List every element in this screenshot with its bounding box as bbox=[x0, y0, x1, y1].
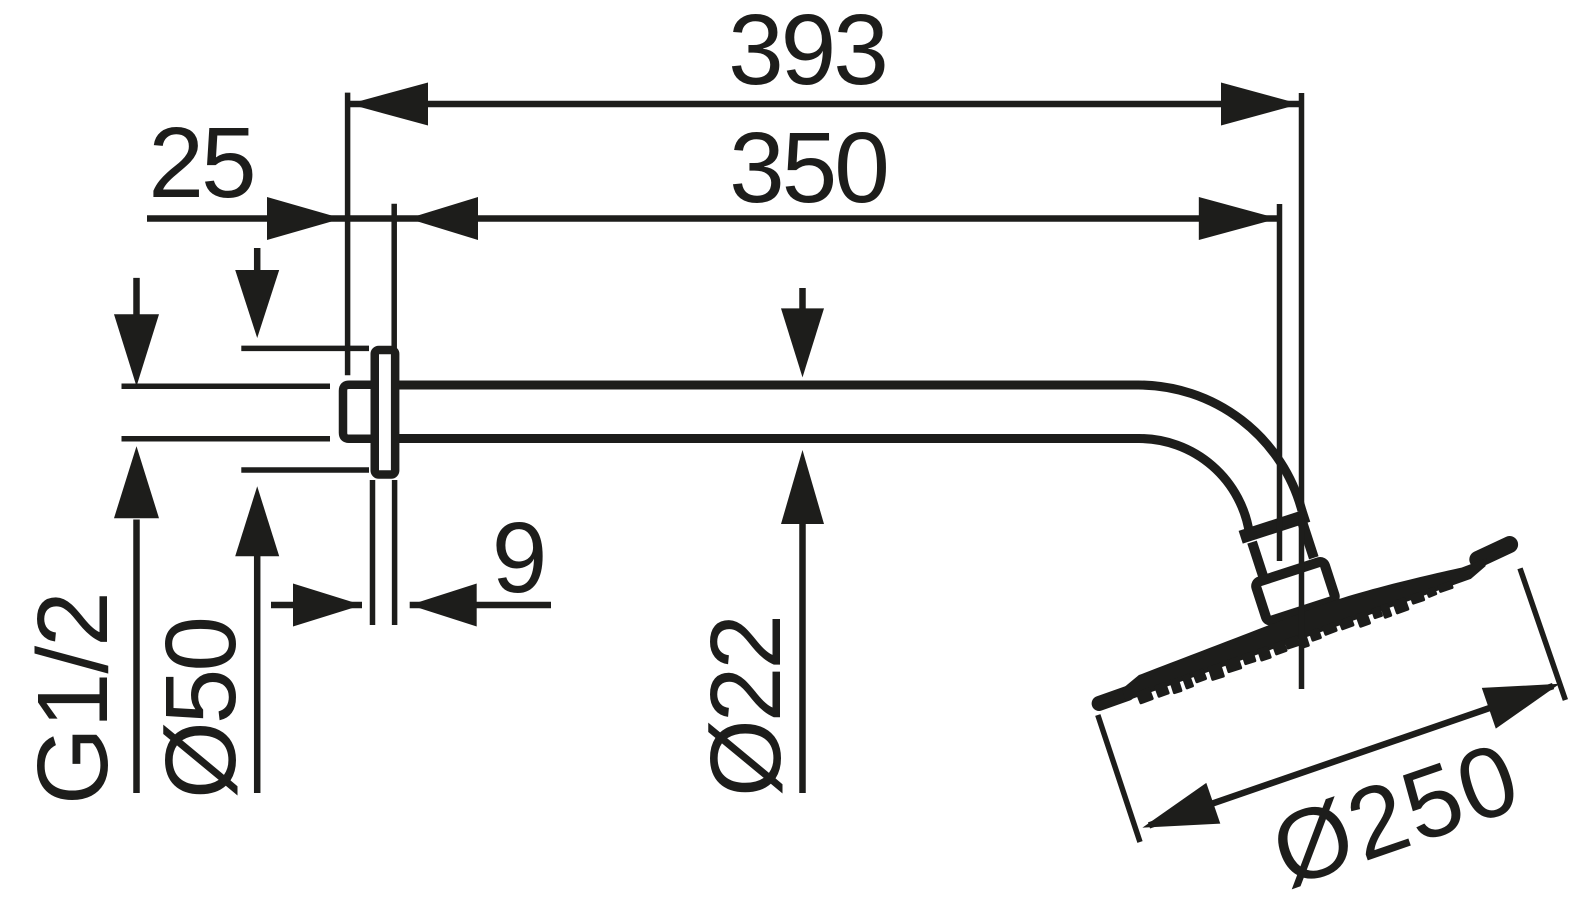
head right tip bbox=[1477, 545, 1511, 560]
G1/2 wall nipple bbox=[343, 385, 378, 439]
arrow 393 left bbox=[349, 83, 428, 126]
svg-text:Ø22: Ø22 bbox=[690, 617, 802, 797]
arrow Ø22 down bbox=[781, 308, 824, 377]
dimension line 350/25 bbox=[147, 215, 1279, 222]
dimension line 393 bbox=[348, 101, 1302, 108]
label Ø250 bbox=[1258, 721, 1533, 908]
extension line Ø50 top bbox=[241, 346, 369, 352]
dimension line Ø250 bbox=[1149, 686, 1553, 825]
extension line wall plane (393/25) bbox=[345, 93, 351, 376]
extension tick Ø250 right bbox=[1520, 568, 1565, 700]
svg-text:393: 393 bbox=[728, 0, 886, 106]
dimension shaft G1/2 bottom bbox=[133, 520, 140, 794]
svg-text:25: 25 bbox=[148, 107, 253, 219]
arrow Ø50 down bbox=[235, 270, 279, 338]
head slab bbox=[1117, 548, 1491, 701]
dimension shaft G1/2 top bbox=[133, 278, 140, 315]
svg-text:350: 350 bbox=[729, 112, 887, 224]
arrow 25 right bbox=[267, 197, 342, 240]
dimension shaft Ø50 bottom bbox=[254, 555, 261, 793]
ball joint housing bbox=[1255, 561, 1336, 622]
extension line head centre (393) bbox=[1299, 93, 1305, 689]
extension line G1/2 bottom bbox=[122, 436, 331, 442]
arrow 350 left bbox=[408, 197, 478, 240]
dimension shaft Ø22 bottom bbox=[799, 523, 806, 793]
shower arm pipe top outline bbox=[396, 385, 1302, 511]
dimension shaft Ø50 top bbox=[254, 248, 261, 271]
svg-text:G1/2: G1/2 bbox=[17, 592, 129, 805]
extension line Ø50 bottom bbox=[241, 467, 369, 473]
dimension line 9 right segment bbox=[410, 602, 551, 609]
arrow 393 right bbox=[1221, 83, 1300, 126]
arrow 350 right bbox=[1199, 197, 1278, 240]
neck tube right side bbox=[1302, 523, 1313, 558]
nozzle teeth bbox=[1135, 687, 1154, 704]
extension tick Ø250 left bbox=[1098, 715, 1140, 842]
extension line arm end (350) bbox=[1277, 204, 1283, 561]
arrow Ø250 lower-left bbox=[1135, 783, 1220, 848]
dimension line 9 left segment bbox=[271, 602, 362, 609]
extension line 9 left bbox=[370, 480, 376, 625]
label Ø22 bbox=[690, 617, 802, 797]
arrow G1/2 down bbox=[114, 314, 159, 386]
extension line flange right (350) bbox=[391, 204, 397, 350]
arrow 9 right bbox=[410, 584, 477, 627]
label G1/2 bbox=[17, 592, 129, 805]
dimension shaft Ø22 top bbox=[799, 288, 806, 309]
arrow Ø50 up bbox=[235, 486, 279, 556]
label Ø50 bbox=[145, 619, 257, 799]
arrow Ø22 up bbox=[781, 450, 824, 524]
svg-text:Ø50: Ø50 bbox=[145, 619, 257, 799]
neck tube left side bbox=[1252, 542, 1263, 576]
shower arm pipe bottom outline bbox=[396, 439, 1250, 535]
arrow G1/2 up bbox=[114, 446, 159, 518]
svg-text:9: 9 bbox=[492, 502, 545, 614]
head left tip bbox=[1099, 693, 1127, 703]
wall flange escutcheon bbox=[375, 350, 395, 475]
connector assembly: nut, neck, ball housing bbox=[1238, 509, 1336, 622]
arrow 9 left bbox=[293, 584, 362, 627]
extension line G1/2 top bbox=[122, 384, 331, 390]
connector nut band bbox=[1239, 509, 1311, 544]
shower head disc (tilted) bbox=[1093, 539, 1520, 719]
extension line 9 right bbox=[392, 480, 398, 625]
arrow Ø250 upper-right bbox=[1482, 663, 1567, 728]
